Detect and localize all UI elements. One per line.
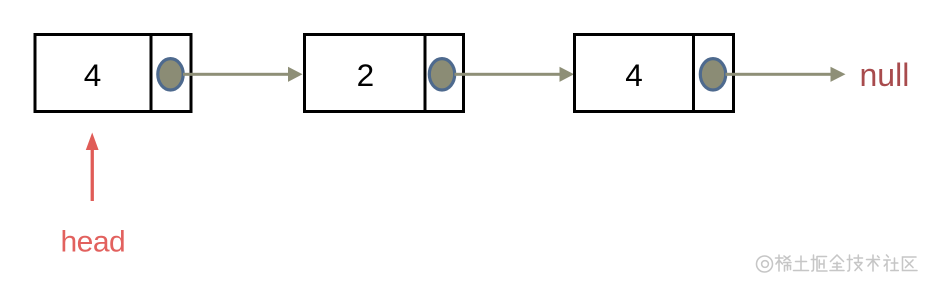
掘 <box>811 255 827 271</box>
社 <box>884 255 899 271</box>
金 <box>830 255 844 271</box>
svg-text:head: head <box>61 225 126 258</box>
node 3 pointer circle <box>700 59 725 90</box>
土 <box>794 256 809 271</box>
node 2 pointer circle <box>429 59 454 90</box>
node 1 box <box>35 33 191 113</box>
技 <box>847 255 862 271</box>
@ <box>757 256 773 272</box>
svg-text:4: 4 <box>625 57 643 93</box>
wire arrow node1 to node2 <box>183 67 303 82</box>
node 2 box <box>305 33 464 113</box>
watermark @稀土掘金技术社区 drawn as strokes <box>757 255 918 272</box>
wire arrow node3 to null <box>726 67 846 82</box>
svg-text:4: 4 <box>84 57 102 93</box>
稀 <box>776 255 792 271</box>
svg-text:null: null <box>860 57 910 93</box>
术 <box>867 255 880 271</box>
区 <box>903 257 918 271</box>
node 3 box <box>575 33 734 113</box>
head arrow <box>86 133 99 202</box>
node 1 pointer circle <box>158 59 183 90</box>
wire arrow node2 to node3 <box>455 67 575 82</box>
svg-text:2: 2 <box>357 57 375 93</box>
